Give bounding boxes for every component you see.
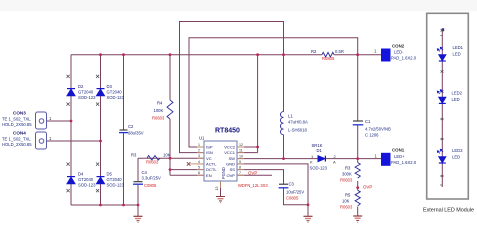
svg-text:SOD-123: SOD-123 xyxy=(107,95,125,100)
svg-text:1: 1 xyxy=(198,143,200,147)
svg-text:11: 11 xyxy=(239,149,243,153)
svg-text:PGND: PGND xyxy=(221,167,226,179)
junction: GND node C3/pin9 xyxy=(307,203,310,206)
capacitor C1 xyxy=(353,119,391,138)
svg-text:L-SH6018: L-SH6018 xyxy=(288,128,308,133)
svg-text:D2: D2 xyxy=(78,84,84,89)
svg-text:ACTL: ACTL xyxy=(206,162,217,167)
svg-text:VC: VC xyxy=(206,156,212,161)
diode D1 xyxy=(310,143,337,171)
svg-text:OVP: OVP xyxy=(363,185,372,190)
svg-text:4: 4 xyxy=(198,160,200,164)
wire OVP pin7 stub xyxy=(237,174,272,176)
connector CON2 xyxy=(374,44,417,62)
diode D2 xyxy=(67,75,97,106)
svg-text:C3: C3 xyxy=(289,182,295,187)
svg-text:OVP: OVP xyxy=(248,171,257,176)
svg-text:D4: D4 xyxy=(78,172,84,177)
svg-text:3.3uF/25V: 3.3uF/25V xyxy=(142,175,162,180)
junction: D3 rail on top bus xyxy=(99,53,102,56)
wire CON1 feed xyxy=(358,158,381,160)
pin numbers xyxy=(198,143,243,191)
capacitor C2 xyxy=(119,124,144,136)
wire LED string xyxy=(441,29,443,187)
wire C1 rail xyxy=(357,55,359,159)
svg-text:GT2040: GT2040 xyxy=(78,90,94,95)
svg-text:GT2040: GT2040 xyxy=(107,177,123,182)
ground under bottom bus xyxy=(134,216,143,222)
diode D4 xyxy=(67,163,97,193)
svg-text:6: 6 xyxy=(198,171,200,175)
wire ISN line A xyxy=(180,22,284,153)
junction: VCC2 pin tap on VCC rail xyxy=(256,146,259,149)
svg-text:GT2040: GT2040 xyxy=(107,90,123,95)
wire ground stub under C3 node xyxy=(307,205,309,216)
svg-text:SOD-123: SOD-123 xyxy=(78,95,96,100)
svg-text:10K: 10K xyxy=(342,199,350,204)
pin stubs left xyxy=(197,147,244,188)
inductor L1 xyxy=(281,112,308,135)
svg-text:D1: D1 xyxy=(317,148,323,153)
LED pin ticks xyxy=(441,30,444,178)
capacitor C3 xyxy=(279,182,305,201)
svg-text:VCC2: VCC2 xyxy=(224,145,236,150)
svg-text:C1: C1 xyxy=(365,119,371,124)
svg-text:LED-: LED- xyxy=(394,50,404,55)
svg-text:0.5R: 0.5R xyxy=(335,49,344,54)
svg-text:R0805: R0805 xyxy=(322,56,335,61)
svg-text:C 1206: C 1206 xyxy=(365,133,379,138)
wire ground stub under bottom bus xyxy=(137,205,139,216)
svg-text:C2: C2 xyxy=(128,124,134,129)
LED LED2 xyxy=(437,90,462,104)
svg-text:10uF/25V: 10uF/25V xyxy=(286,190,304,195)
svg-text:L1: L1 xyxy=(288,114,293,119)
diode D3 xyxy=(96,75,125,106)
wire VCC rail xyxy=(237,55,258,153)
wire pin6 from R4 rail xyxy=(170,174,204,176)
wire R3 R5 chain xyxy=(357,159,359,216)
svg-text:HOLD_2X50.85: HOLD_2X50.85 xyxy=(2,122,32,127)
svg-text:R3: R3 xyxy=(345,166,351,171)
svg-text:LED: LED xyxy=(453,52,461,57)
svg-text:External LED Module: External LED Module xyxy=(423,208,474,214)
junction: L1 bottom on SW line xyxy=(282,157,285,160)
wire ISP line B xyxy=(189,38,358,147)
svg-text:R2: R2 xyxy=(311,49,317,54)
svg-text:SS: SS xyxy=(230,167,236,172)
svg-text:C0805: C0805 xyxy=(286,196,299,201)
External LED module box xyxy=(423,13,474,213)
svg-text:R4: R4 xyxy=(157,101,163,106)
svg-text:LED: LED xyxy=(452,97,460,102)
svg-text:C0805: C0805 xyxy=(144,183,157,188)
wire CON4 to bridge xyxy=(47,140,101,142)
ground under R5 xyxy=(353,216,362,222)
svg-text:A: A xyxy=(333,159,336,164)
connector CON1 xyxy=(375,148,417,166)
wire rail C2 xyxy=(123,55,125,205)
svg-text:TE 1_S02_TXL: TE 1_S02_TXL xyxy=(2,116,31,121)
svg-text:R0603: R0603 xyxy=(146,160,159,165)
wire SS pin8 to C3 xyxy=(237,170,308,205)
ground under IC pin13 xyxy=(216,197,225,203)
svg-text:OVP: OVP xyxy=(226,173,235,178)
svg-text:LED1: LED1 xyxy=(453,45,464,50)
svg-text:SOD-123: SOD-123 xyxy=(310,166,328,171)
svg-text:13: 13 xyxy=(215,187,219,191)
svg-text:VCC1: VCC1 xyxy=(224,150,236,155)
no-connect X on pin 4 xyxy=(187,162,191,166)
wire IC pin13 stub xyxy=(220,181,222,196)
capacitor C4 xyxy=(133,170,161,188)
connector CON3 xyxy=(2,111,52,130)
svg-text:PAD_1.6X2.0: PAD_1.6X2.0 xyxy=(391,56,417,61)
junction: VCC rail on top bus xyxy=(256,53,259,56)
svg-text:12: 12 xyxy=(239,143,243,147)
svg-text:R0603: R0603 xyxy=(340,178,353,183)
svg-text:7: 7 xyxy=(239,171,241,175)
resistor R3 300K xyxy=(340,163,360,183)
svg-text:LED+: LED+ xyxy=(394,154,405,159)
svg-text:8: 8 xyxy=(239,166,241,170)
wire SW to D1 to C1 node xyxy=(237,158,358,160)
LED LED3 xyxy=(437,148,463,163)
wire top bus right segment xyxy=(334,54,381,56)
wire L1 rail xyxy=(283,55,285,159)
svg-text:SOD-123: SOD-123 xyxy=(78,183,96,188)
svg-text:CON4: CON4 xyxy=(13,131,26,136)
svg-text:CON2: CON2 xyxy=(392,44,405,49)
junction: R4 rail on VC line xyxy=(169,157,172,160)
svg-text:9: 9 xyxy=(239,160,241,164)
junction: node OVP divider R3/R5 xyxy=(356,186,359,189)
svg-text:R3: R3 xyxy=(131,153,137,158)
svg-text:LED3: LED3 xyxy=(452,148,463,153)
svg-text:10: 10 xyxy=(239,155,243,159)
LED LED1 xyxy=(437,45,463,61)
svg-text:4.7x2/50V/NB: 4.7x2/50V/NB xyxy=(365,127,391,132)
ground under C3 node xyxy=(304,216,313,222)
svg-text:10K: 10K xyxy=(163,153,171,158)
svg-text:EN: EN xyxy=(206,173,212,178)
wire GND pin9 route xyxy=(237,164,308,205)
svg-text:3: 3 xyxy=(198,154,200,158)
top gray band xyxy=(0,0,477,11)
junction: C2 rail on bottom bus xyxy=(122,204,125,207)
svg-text:SOD-123: SOD-123 xyxy=(107,183,125,188)
wire rail D3/D5 xyxy=(100,55,102,205)
svg-text:100K: 100K xyxy=(154,108,164,113)
svg-text:WDFN_12L 3X3: WDFN_12L 3X3 xyxy=(238,183,268,188)
junction: CON4 wire to D3/D5 rail xyxy=(99,140,102,143)
svg-text:5: 5 xyxy=(198,166,200,170)
resistor R5 xyxy=(340,190,360,209)
svg-text:DCTL: DCTL xyxy=(206,167,217,172)
junction: C4 leg on bottom bus xyxy=(137,204,140,207)
junction: node LED+ (C1/D1/R3/CON1) xyxy=(356,157,359,160)
wire C4 branch xyxy=(137,158,139,216)
junction: R4 rail on top bus xyxy=(169,53,172,56)
svg-text:CON3: CON3 xyxy=(13,111,26,116)
resistor R4 xyxy=(152,100,173,121)
svg-text:LED: LED xyxy=(452,155,460,160)
op-amp U1 RT8450 body xyxy=(187,128,269,191)
svg-text:ISP: ISP xyxy=(206,145,213,150)
wire bottom bus xyxy=(71,204,138,206)
junction: L1 rail on top bus xyxy=(282,53,285,56)
svg-text:2: 2 xyxy=(198,149,200,153)
svg-text:R5: R5 xyxy=(345,193,351,198)
svg-text:PAD_1.6X2.0: PAD_1.6X2.0 xyxy=(391,160,417,165)
svg-text:47uH/0.8A: 47uH/0.8A xyxy=(288,120,308,125)
junction: CON3 wire to D2/D4 rail xyxy=(70,120,73,123)
junction: C1 rail on top bus xyxy=(356,53,359,56)
svg-text:D3: D3 xyxy=(107,84,113,89)
junction: R4 rail on DCTL line xyxy=(169,168,172,171)
resistor R2 xyxy=(311,49,344,61)
svg-text:SW: SW xyxy=(228,156,235,161)
junction: C2 rail on top bus xyxy=(122,53,125,56)
wire CON3 to bridge xyxy=(47,120,71,122)
wire top bus left segment xyxy=(71,54,322,56)
wire VC line pin3 xyxy=(138,157,204,159)
svg-text:68u/35V: 68u/35V xyxy=(128,131,144,136)
svg-text:ISN: ISN xyxy=(206,150,213,155)
wire rail R4 xyxy=(169,55,171,176)
svg-text:LED2: LED2 xyxy=(452,91,463,96)
wire rail D2/D4 xyxy=(70,55,72,205)
svg-text:D5: D5 xyxy=(107,172,113,177)
wire pin5 from R4 rail xyxy=(170,169,204,171)
pin names xyxy=(206,145,236,179)
svg-text:300K: 300K xyxy=(342,172,352,177)
svg-text:TE 1_S02_TXL: TE 1_S02_TXL xyxy=(2,136,31,141)
svg-text:R0603: R0603 xyxy=(152,116,165,121)
svg-text:K: K xyxy=(310,159,313,164)
svg-text:HOLD_2X50.85: HOLD_2X50.85 xyxy=(2,142,32,147)
svg-text:U1: U1 xyxy=(199,136,205,141)
resistor R3 10K xyxy=(131,153,171,165)
svg-text:GND: GND xyxy=(226,162,235,167)
diode D5 xyxy=(96,163,125,193)
svg-text:RT8450: RT8450 xyxy=(215,128,240,135)
svg-text:R0603: R0603 xyxy=(340,205,353,210)
svg-text:GT2040: GT2040 xyxy=(78,177,94,182)
junction: D5 rail on bottom bus xyxy=(99,204,102,207)
svg-text:CON1: CON1 xyxy=(392,148,405,153)
connector CON4 xyxy=(2,131,52,150)
